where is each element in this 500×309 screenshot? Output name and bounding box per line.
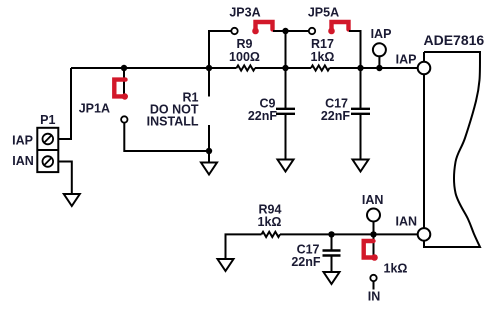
ground (324, 272, 340, 284)
wire (273, 30, 286, 32)
pin JP3A-1 (231, 28, 237, 34)
svg-text:IAN: IAN (395, 214, 417, 228)
wire main horizontal IAP net (71, 67, 237, 69)
jumper shunt to IN (364, 234, 408, 275)
wire (349, 31, 361, 68)
node junction (328, 231, 334, 237)
svg-text:JP3A: JP3A (229, 6, 260, 20)
svg-text:1kΩ: 1kΩ (258, 215, 282, 229)
svg-text:P1: P1 (40, 113, 55, 127)
svg-text:IN: IN (368, 290, 381, 304)
svg-text:IAP: IAP (371, 27, 392, 41)
resistor R17 (311, 37, 335, 70)
wire (280, 233, 418, 235)
resistor R94 (258, 202, 282, 237)
wire JP5A bypass (286, 30, 310, 32)
connector P1 (37, 128, 58, 172)
wire P1 pin1 to main node (58, 68, 71, 139)
wire (330, 67, 419, 69)
svg-text:22nF: 22nF (321, 109, 351, 123)
capacitor C9 (248, 68, 295, 160)
ground (353, 160, 369, 172)
svg-text:IAN: IAN (12, 154, 34, 168)
svg-text:R17: R17 (311, 37, 334, 51)
svg-text:22nF: 22nF (248, 109, 278, 123)
svg-text:IAP: IAP (12, 134, 33, 148)
wire bypass to main (285, 31, 287, 68)
svg-text:R9: R9 (237, 37, 253, 51)
wire (255, 67, 311, 69)
node junction (121, 65, 127, 71)
svg-text:ADE7816: ADE7816 (424, 32, 485, 48)
svg-text:1kΩ: 1kΩ (384, 262, 408, 276)
pin IAN of ADE7816 (395, 214, 430, 240)
pin IAP of ADE7816 (396, 53, 431, 75)
svg-text:INSTALL: INSTALL (147, 114, 199, 128)
wire JP3A bypass (209, 31, 231, 68)
node junction (206, 65, 212, 71)
resistor R9 (229, 37, 260, 70)
svg-text:100Ω: 100Ω (229, 50, 260, 64)
jumper JP5A (308, 6, 349, 35)
node IAN (362, 193, 384, 238)
svg-text:22nF: 22nF (291, 255, 321, 269)
ground (64, 194, 80, 206)
svg-text:IAN: IAN (362, 193, 384, 207)
wire JP1A pin to R1 bottom node (124, 123, 209, 151)
node junction (282, 65, 288, 71)
svg-text:JP1A: JP1A (79, 101, 110, 115)
wire IAN net left end to ground (226, 234, 262, 259)
pin JP5A-1 (309, 28, 315, 34)
svg-text:JP5A: JP5A (308, 6, 339, 20)
svg-text:1kΩ: 1kΩ (311, 50, 335, 64)
jumper JP1A (79, 68, 128, 123)
node junction (282, 28, 288, 34)
svg-text:IAP: IAP (396, 53, 417, 67)
ground (201, 151, 217, 175)
ground (278, 160, 294, 172)
capacitor C17 (321, 68, 370, 160)
node junction (206, 148, 212, 154)
capacitor C17 bottom (291, 234, 340, 272)
resistor R1 do not install (147, 68, 209, 151)
jumper JP3A (229, 6, 272, 35)
pin IN (368, 275, 381, 304)
node junction (357, 65, 363, 71)
IC ADE7816 (424, 32, 485, 247)
ground (218, 259, 234, 271)
node IAP (371, 27, 392, 71)
wire P1 pin2 to ground (58, 162, 72, 195)
